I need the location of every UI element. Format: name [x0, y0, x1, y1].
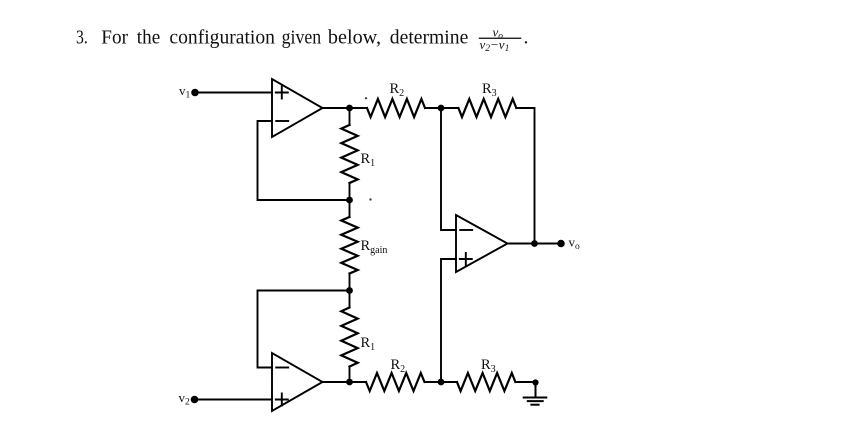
- resistor Rgain (vertical): [349, 200, 351, 217]
- wire V2 to op-amp U2 + input: [195, 399, 273, 401]
- svg-text:the: the: [137, 27, 160, 48]
- svg-text:3.: 3.: [76, 27, 88, 48]
- terminal Vo: [557, 240, 565, 248]
- svg-text:determine: determine: [390, 27, 469, 48]
- wire U1 feedback (inverting input to node below R1): [258, 121, 350, 200]
- wire U2 feedback (inverting input to node above R1 bottom): [258, 291, 350, 368]
- op-amp U3 (output stage): [456, 215, 508, 272]
- wire U3 output to Vo terminal: [508, 243, 562, 245]
- op-amp U2 (bottom left): [272, 353, 323, 411]
- wire U2 output to bottom rail: [323, 381, 367, 383]
- svg-text:configuration: configuration: [169, 27, 275, 48]
- resistor R2 (top, horizontal): [367, 99, 425, 117]
- wire node R2/R3 bottom up to U3 + input: [441, 259, 456, 382]
- node output junction (feedback tap): [531, 240, 538, 247]
- wire R3 top feedback down to output node: [516, 108, 534, 244]
- node junction Rgain/R1-bottom (feedback tap): [346, 287, 353, 294]
- svg-text:For: For: [101, 27, 128, 48]
- ground: [524, 383, 547, 405]
- node junction R1/Rgain (feedback tap): [346, 197, 353, 204]
- svg-text:below,: below,: [328, 27, 381, 48]
- U3 - sign: [460, 229, 472, 231]
- U1 - sign: [276, 120, 288, 122]
- stray node mark a: [365, 97, 367, 99]
- resistor R3 (top, horizontal): [458, 99, 516, 117]
- U1 + sign: [276, 87, 288, 99]
- op-amp U1 (top left): [272, 79, 323, 137]
- resistor R1 (top, vertical): [349, 108, 351, 125]
- wire node R2/R3 top down to U3 - input: [441, 108, 456, 230]
- problem statement text: [76, 27, 468, 48]
- U2 + sign: [276, 394, 288, 406]
- resistor R2 (bottom, horizontal): [366, 373, 425, 391]
- terminal V1: [191, 89, 199, 97]
- wire V1 to op-amp U1 + input: [195, 92, 272, 94]
- resistor R3 (bottom, horizontal): [457, 373, 515, 391]
- U2 - sign: [276, 367, 288, 369]
- svg-text:.: .: [524, 27, 529, 48]
- node ground junction: [532, 379, 538, 385]
- resistor R1 (bottom, vertical): [349, 291, 351, 308]
- wire U1 output to top rail: [323, 107, 368, 109]
- svg-text:given: given: [282, 27, 322, 48]
- stray node mark b: [369, 198, 371, 200]
- terminal V2: [191, 396, 199, 404]
- node U1-output / R1 top junction: [346, 105, 353, 112]
- U3 + sign: [460, 253, 472, 265]
- fraction vo/(v2-v1): [479, 24, 529, 54]
- node U2-output / R1-bottom junction: [346, 379, 353, 386]
- node junction R2/R3 (bottom): [438, 379, 445, 386]
- node junction R2/R3 (top): [438, 105, 445, 112]
